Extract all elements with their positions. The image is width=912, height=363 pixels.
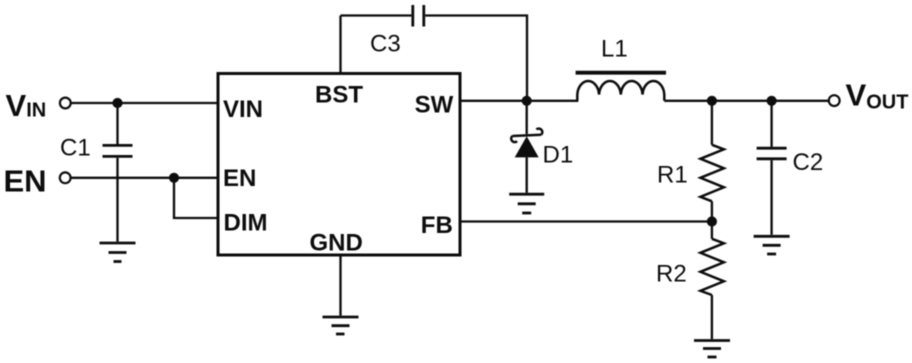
wire VIN rail	[71, 102, 218, 104]
wire SW rail	[460, 100, 578, 102]
svg-text:C3: C3	[370, 31, 401, 58]
capacitor C2	[757, 101, 787, 235]
inductor L1	[576, 73, 666, 101]
ground (IC GND)	[323, 317, 359, 334]
node FB junction	[707, 216, 717, 226]
diode D1 (schottky)	[511, 101, 542, 193]
svg-text:D1: D1	[543, 141, 574, 168]
svg-text:L1: L1	[601, 36, 628, 63]
svg-text:DIM: DIM	[224, 209, 268, 236]
wire EN rail	[71, 177, 218, 179]
svg-text:BST: BST	[315, 82, 363, 109]
IC U1 box	[218, 74, 460, 256]
resistor R2	[700, 222, 724, 340]
node EN junction	[169, 173, 179, 183]
svg-text:EN: EN	[223, 165, 256, 192]
wire EN to DIM	[174, 178, 218, 218]
svg-text:VOUT: VOUT	[846, 78, 909, 114]
svg-text:VIN: VIN	[223, 96, 263, 123]
svg-text:R2: R2	[656, 260, 687, 287]
node EN terminal	[60, 172, 71, 183]
wire C3 to SW node	[425, 16, 527, 102]
wire BST stub	[339, 16, 341, 74]
node VOUT terminal	[829, 95, 840, 106]
svg-text:VIN: VIN	[6, 88, 47, 123]
node VIN terminal	[60, 98, 71, 109]
wire FB rail	[460, 220, 712, 222]
ground (C2)	[754, 236, 790, 254]
svg-text:EN: EN	[4, 164, 47, 199]
wire output rail	[664, 100, 829, 102]
svg-text:GND: GND	[310, 229, 363, 256]
ground (D1)	[509, 194, 544, 213]
svg-text:R1: R1	[657, 162, 688, 189]
node C2 junction	[767, 96, 777, 106]
capacitor C1	[103, 103, 133, 242]
node SW junction	[522, 96, 532, 106]
svg-text:C2: C2	[793, 149, 824, 176]
resistor R1	[700, 101, 724, 222]
ground (R2)	[694, 341, 730, 358]
ground (C1)	[100, 243, 136, 262]
node VIN junction	[112, 98, 122, 108]
node R1 junction	[707, 96, 717, 106]
wire GND stub	[339, 255, 341, 316]
wire BST top rail	[341, 14, 412, 16]
svg-text:FB: FB	[421, 212, 453, 239]
svg-text:C1: C1	[60, 134, 91, 161]
capacitor C3	[413, 5, 424, 27]
svg-text:SW: SW	[415, 91, 454, 118]
